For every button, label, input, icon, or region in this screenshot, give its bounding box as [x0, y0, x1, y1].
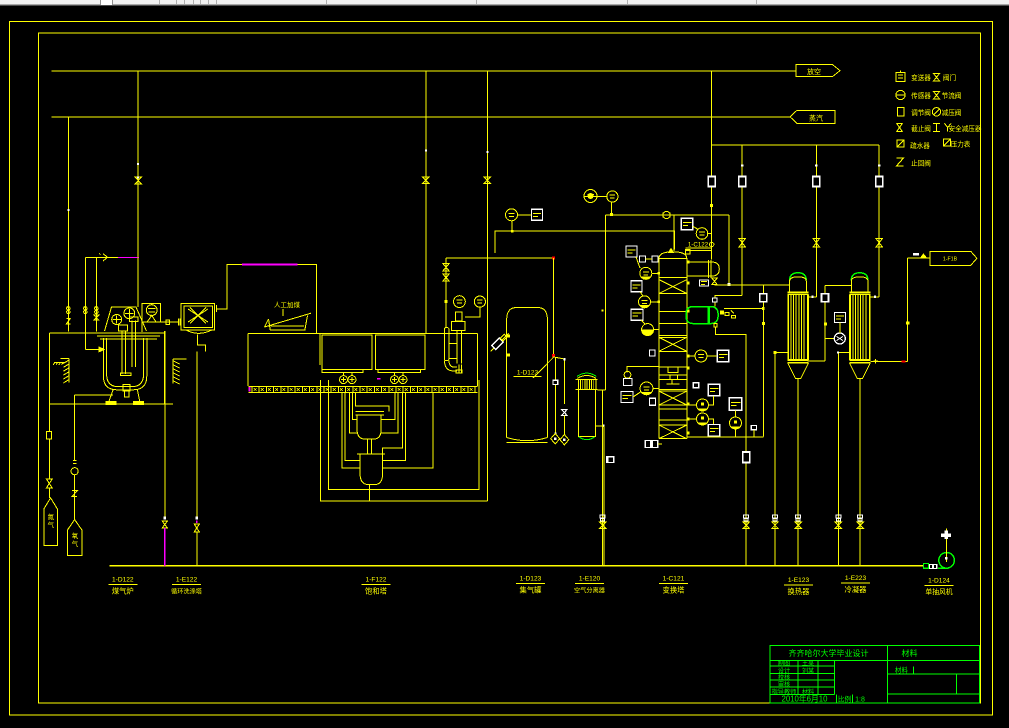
wire drop to vessel (x96): [95, 257, 97, 331]
packing X sections: [659, 280, 687, 294]
gauge 2 drop: [465, 307, 480, 317]
cylinder 2 feed wire: [74, 395, 76, 460]
exch2 side feed: [838, 352, 850, 354]
svg-text:1:8: 1:8: [855, 697, 865, 704]
central tube: [456, 331, 458, 364]
gas cylinder 1: [44, 498, 58, 546]
svg-text:单抽风机: 单抽风机: [925, 587, 952, 596]
svg-text:煤气炉: 煤气炉: [112, 586, 134, 595]
flow flag: steam (left arrow): [790, 110, 835, 123]
title row line: [770, 659, 980, 661]
svg-text:王某: 王某: [802, 659, 814, 667]
wire 742 elbow to drum inlet: [715, 296, 742, 307]
left table: [770, 665, 835, 667]
small tag: [650, 398, 656, 405]
exch2 head: [851, 277, 868, 293]
exch2 top flange: [849, 291, 870, 293]
lower drum body: [360, 454, 383, 484]
svg-text:氮: 氮: [48, 512, 55, 521]
svg-text:冷凝器: 冷凝器: [845, 585, 868, 594]
top feed wire y285: [715, 284, 790, 286]
flow flag: off-gas (right arrow): [796, 65, 840, 77]
green drum: [686, 307, 718, 324]
fitting on line E: [708, 177, 715, 187]
vertical 763: [762, 285, 764, 437]
red grip dot: [552, 257, 555, 260]
instrument circle R: [730, 417, 742, 429]
fitting: [743, 452, 750, 463]
valve on 879: [876, 239, 882, 248]
exch2 bottom flange: [849, 359, 870, 361]
svg-text:止回阀: 止回阀: [911, 159, 931, 168]
cyclone filter: inner box: [184, 306, 213, 327]
drop x196.8: [196, 517, 199, 520]
drop wire: [445, 258, 447, 327]
lower instruments: [693, 383, 699, 388]
wire drop 742: [741, 145, 743, 296]
bottom elbow: [444, 361, 457, 371]
furnace chamber 1: [322, 335, 372, 370]
gauge circle 1: [454, 296, 466, 308]
cylinder 1 feed wire: [48, 404, 50, 431]
svg-text:节流阀: 节流阀: [942, 91, 962, 100]
line D continues as box right wall: [486, 258, 488, 501]
fittings on wire B: [67, 307, 70, 310]
svg-text:阀门: 阀门: [943, 73, 956, 82]
gauge circle 2: [474, 296, 485, 307]
magenta highlight segment: [118, 256, 139, 258]
saturator green bottom: [579, 437, 595, 440]
manifold cross pipe: [383, 393, 433, 468]
svg-text:材料: 材料: [895, 666, 909, 675]
exch2 outlet to valve line: [870, 296, 879, 298]
legend trap symbol: [897, 140, 904, 147]
tag2: [631, 281, 642, 292]
valve: [47, 479, 53, 488]
valve z: [72, 491, 77, 497]
internal weir: [668, 367, 678, 379]
exch2 cone: [849, 363, 870, 379]
wall junction dots: [687, 261, 690, 264]
U-pipes left bank: [342, 393, 360, 468]
valve on v3: [484, 177, 490, 184]
toolbar sliver: [0, 0, 1009, 4]
exch1 top flange: [788, 291, 809, 293]
svg-text:刘某: 刘某: [802, 667, 814, 675]
column stack vent: [673, 215, 675, 251]
wire magenta to furnace: [297, 265, 316, 334]
exch2 shell + tubes: [849, 294, 851, 360]
tank shell: [506, 319, 508, 438]
spray nozzle diamonds: [551, 434, 560, 444]
title block frame: [770, 645, 980, 703]
furnace chamber 2: [376, 335, 425, 370]
saturator green cap: [577, 373, 596, 376]
furnace right wall: [476, 333, 478, 386]
small squares: [640, 256, 646, 262]
circle K4: [640, 382, 653, 395]
ground hatch left: [68, 359, 70, 383]
compound valve: [600, 515, 605, 518]
steam header 2 (wire): [52, 116, 791, 118]
legend throttle symbol: [934, 92, 940, 100]
gauge bracket 2: [378, 370, 420, 373]
wire to flag: [908, 257, 930, 259]
drop: [610, 202, 612, 215]
wire exch2 to riser: [870, 360, 907, 362]
impeller: [120, 373, 131, 376]
drop x164.8 with magenta: [164, 331, 166, 517]
bottom tags: [645, 441, 651, 448]
agitator shaft: [121, 331, 123, 374]
svg-text:变换塔: 变换塔: [663, 585, 686, 594]
wire v1 from header1: [137, 71, 139, 257]
instrument circle: [506, 209, 518, 221]
legend sensor symbol: [896, 90, 905, 99]
instrument stand bracket: [142, 304, 160, 332]
instrument circle on stand: [146, 305, 157, 316]
wire from line D to vessel: [446, 257, 487, 259]
svg-text:人工加煤: 人工加煤: [274, 300, 301, 309]
svg-text:蒸汽: 蒸汽: [809, 113, 823, 122]
seal box outer: [321, 380, 488, 501]
gauge pair 1: [343, 372, 345, 376]
vessel legs: [109, 390, 113, 402]
svg-text:传感器: 传感器: [911, 91, 931, 100]
svg-text:1-E223: 1-E223: [845, 575, 867, 582]
svg-text:循环洗涤塔: 循环洗涤塔: [171, 587, 203, 595]
gauge circle: [71, 468, 78, 475]
wire drum to exch circuit: [724, 308, 763, 310]
valve on 816: [813, 239, 819, 248]
circle pair mid: [695, 350, 707, 362]
svg-text:1-C122: 1-C122: [688, 241, 709, 248]
wire v3 (line D) from header1: [486, 71, 488, 258]
svg-text:换热器: 换热器: [788, 587, 811, 596]
svg-text:1-E123: 1-E123: [788, 577, 810, 584]
gas cylinder 2: [68, 520, 82, 556]
vessel top flange: [452, 322, 466, 331]
tag on outlet: [607, 457, 614, 463]
legend check valve symbol: [897, 158, 904, 166]
saturator body: [578, 390, 595, 437]
title divider: [886, 645, 888, 703]
tag: [700, 280, 709, 286]
pit outline: [50, 333, 173, 404]
upper drum body: [357, 415, 381, 439]
vertical 825: [825, 284, 851, 286]
instrument tag: [532, 209, 543, 220]
svg-text:齐齐哈尔大学毕业设计: 齐齐哈尔大学毕业设计: [789, 648, 869, 658]
compound valve: [836, 515, 841, 518]
compound valve: [858, 515, 863, 518]
compound valve: [773, 515, 778, 518]
right material cell: [887, 673, 979, 675]
wire to instruments: [687, 436, 763, 438]
tag3: [631, 309, 643, 320]
arrow into vessel: [85, 348, 103, 350]
legend transmitter symbol: [896, 73, 905, 82]
instrument circle L2: [697, 413, 709, 425]
wire line E from header1: [711, 71, 713, 259]
legend gauge symbol: [944, 139, 951, 146]
gauge box: [47, 432, 52, 439]
tag: [626, 246, 637, 257]
tag4: [621, 392, 633, 403]
branch header to exchangers (wire): [712, 144, 880, 146]
exch1 side feed: [775, 352, 788, 354]
legend stop valve symbol: [897, 123, 903, 131]
drum outlet glyphs: [720, 311, 724, 315]
circle K2: [639, 296, 651, 308]
small tag: [650, 350, 656, 356]
valve under drum: [712, 278, 718, 285]
svg-text:集气罐: 集气罐: [520, 585, 543, 594]
svg-text:饱和塔: 饱和塔: [365, 586, 388, 595]
exch1 head: [790, 277, 807, 293]
saturator dome: [577, 376, 596, 379]
wire B from header2: [67, 117, 69, 332]
wire drop to vessel (x85): [84, 257, 86, 349]
wire drop 879: [878, 145, 880, 297]
valve (white): [562, 409, 568, 415]
column trays: [659, 259, 687, 439]
svg-text:疏水器: 疏水器: [910, 141, 930, 150]
exch1 bottoms wire: [797, 379, 799, 566]
drum neck: [367, 439, 369, 454]
svg-text:压力表: 压力表: [951, 140, 971, 149]
arrow head (open chevron): [103, 254, 108, 261]
instrument circle L1: [697, 399, 709, 411]
drum bottom drain: [716, 327, 747, 566]
white cross-bar mark: [941, 533, 951, 537]
blower volute (green): [939, 553, 955, 569]
vessel body outer shell: [103, 338, 146, 390]
svg-text:氧: 氧: [72, 531, 79, 540]
platform lines: [88, 332, 164, 334]
drain to box bottom: [369, 485, 371, 502]
drop to wire y231: [511, 221, 513, 231]
magenta tick: [377, 378, 380, 380]
svg-text:空气分离器: 空气分离器: [574, 586, 606, 594]
svg-text:1-D123: 1-D123: [520, 576, 542, 583]
jacket dividers: [449, 343, 457, 345]
wire v1 continues to vessel dome: [137, 257, 139, 307]
upper drum flanges: [356, 410, 385, 412]
exch1 outlet to valve line: [809, 296, 817, 298]
product flow flag: [930, 251, 977, 265]
magenta grate end tick: [249, 387, 251, 392]
small valve: [94, 315, 99, 320]
svg-text:截止阀: 截止阀: [911, 124, 931, 133]
vessel neck: [456, 312, 463, 321]
furnace left wall: [247, 333, 249, 386]
valve a: [443, 264, 449, 272]
tag PT: [681, 218, 693, 230]
pit inner vertical: [164, 331, 166, 404]
circle K1: [640, 267, 652, 279]
manifold end green box: [923, 563, 928, 568]
valve b: [443, 274, 449, 281]
compound valve: [744, 515, 749, 518]
internal tube: [131, 320, 133, 366]
svg-text:制图: 制图: [778, 659, 790, 667]
tank bottom: [507, 438, 548, 441]
bottom manifold wire: [109, 565, 923, 567]
blower stem: [945, 529, 947, 563]
exch1 cone: [788, 363, 809, 379]
exch2 bottoms wire: [859, 379, 861, 566]
gas producer 1-D122: dome: [105, 307, 147, 331]
wire v2 from header1: [425, 71, 427, 333]
tank dome: [507, 308, 548, 319]
circle-cross inline valve: [663, 211, 670, 218]
overhead drum: [687, 261, 711, 263]
svg-text:1-D124: 1-D124: [928, 577, 950, 584]
diagonal sampling cock: [491, 333, 509, 351]
valve on v2: [423, 177, 429, 184]
valve on 742: [739, 239, 745, 248]
feed bracket: [627, 367, 659, 373]
filter bottom curve: [186, 330, 211, 333]
ground hatch right: [172, 359, 174, 384]
wire filter to magenta line: [217, 265, 242, 309]
svg-text:审核: 审核: [778, 680, 790, 688]
feed wire y257 with arrow: [85, 256, 118, 258]
legend symbols: [933, 123, 940, 131]
furnace top: [248, 332, 477, 334]
exch2 green cap: [851, 273, 868, 281]
valve on v1: [135, 177, 141, 184]
svg-text:减压阀: 减压阀: [942, 108, 962, 117]
coal chute: [265, 313, 312, 327]
instrument tag R: [729, 398, 742, 411]
svg-text:1-F122: 1-F122: [366, 577, 387, 584]
magenta highlighted wire: [242, 264, 297, 266]
fanout to spray nozzles: [533, 357, 554, 378]
svg-text:变送器: 变送器: [911, 73, 931, 82]
outlet flange: [458, 365, 460, 374]
svg-text:材料: 材料: [902, 648, 918, 658]
cyclone filter: outer box: [181, 303, 214, 330]
legend regulator symbol: [898, 108, 904, 117]
seal box inner: [328, 380, 479, 489]
steam header 1 (wire): [52, 70, 797, 72]
red highlight tick: [901, 360, 905, 362]
bottoms wire to manifold: [602, 390, 604, 566]
agitator motor circle 2: [124, 308, 135, 319]
filter outlet flange: [214, 305, 216, 312]
wire y231: [495, 231, 674, 253]
instrument circle exch2: [834, 333, 845, 344]
circle I: [696, 228, 708, 240]
wire down right of tank: [553, 258, 555, 357]
grate rails: [249, 385, 478, 387]
svg-text:2010年6月10: 2010年6月10: [782, 694, 829, 704]
svg-text:气: 气: [48, 520, 55, 529]
furnace divider: [319, 333, 321, 365]
gauge bracket 1: [322, 370, 363, 373]
filter inlet flange: [177, 319, 179, 326]
svg-text:1-F1B: 1-F1B: [943, 257, 958, 263]
gauge circles pair: [584, 190, 597, 203]
svg-text:气: 气: [72, 539, 79, 548]
cyclone X pattern: [188, 308, 208, 324]
svg-text:1-C121: 1-C121: [663, 576, 685, 583]
legend reducing valve symbol: [932, 108, 940, 116]
exch1 green cap: [790, 273, 807, 281]
vessel drain header: [75, 394, 113, 396]
saturator flange band: [576, 379, 598, 381]
compound valve: [796, 515, 801, 518]
exch1 bottom flange: [788, 359, 809, 361]
svg-text:校核: 校核: [778, 673, 790, 681]
riser wire: [907, 258, 909, 361]
U-pipes right bank: [381, 393, 395, 420]
wire down right of column: [728, 215, 730, 285]
ground surface dashes: [54, 361, 65, 363]
wire down to saturator: [604, 215, 606, 390]
gauge pair 2: [394, 372, 396, 376]
svg-text:安全减压器: 安全减压器: [949, 124, 982, 133]
bottom nozzle: [123, 385, 130, 391]
exch1 shell + tubes: [787, 294, 789, 360]
lower drum flange: [357, 453, 385, 455]
svg-text:1-E120: 1-E120: [579, 576, 601, 583]
svg-text:1-E122: 1-E122: [176, 577, 198, 584]
wire y215: [605, 214, 729, 216]
vessel body inner shell: [107, 338, 144, 386]
circle K3: [642, 324, 654, 336]
seal pot circle: [624, 371, 631, 378]
saturator outlet: [595, 425, 604, 427]
legend valve symbol: [934, 74, 940, 82]
svg-text:比例: 比例: [838, 695, 852, 704]
tag exch2: [835, 313, 846, 323]
svg-text:调节阀: 调节阀: [911, 108, 931, 117]
filter drain wire: [198, 335, 206, 352]
agitator motor circle 1: [112, 315, 122, 325]
wire drop 816: [815, 145, 817, 297]
grate cells: [252, 386, 475, 392]
svg-text:放空: 放空: [807, 67, 821, 76]
column shell: [658, 259, 660, 439]
column dome: [659, 252, 687, 259]
jacket tube: [444, 327, 449, 360]
svg-text:1-D122: 1-D122: [112, 577, 134, 584]
wire y258: [487, 257, 553, 259]
filter feed wire: [143, 321, 178, 323]
